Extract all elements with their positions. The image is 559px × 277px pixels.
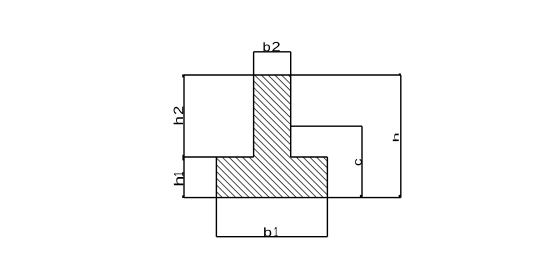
label h - glyph h: [393, 134, 399, 142]
T-section stem right edge: [290, 52, 292, 157]
tick at top-left corner: [182, 74, 184, 77]
label b2 - glyph 2: [272, 42, 280, 51]
T-section stem left edge: [253, 52, 255, 157]
label b1 - glyph b: [264, 227, 271, 236]
label h2 - glyph h: [174, 117, 183, 124]
flange bottom edge / dimension baseline: [184, 197, 401, 199]
tick at bottom-left corner: [182, 195, 184, 198]
flange top edge left + h1/h2 extension line: [184, 156, 254, 158]
flange left edge + b1 extension: [215, 157, 217, 237]
tick at left h1/h2 split: [182, 155, 184, 161]
dimension line b2: [254, 51, 291, 53]
label b2 - glyph b: [264, 42, 271, 51]
label c - glyph c: [355, 159, 362, 166]
dimension line c (vertical): [361, 126, 363, 197]
hatched T cross-section area: [216, 75, 327, 198]
dimension vertical h1/h2 (left): [183, 75, 185, 198]
dimension line h (top, also stem top edge): [184, 74, 401, 76]
label h1 - glyph h: [174, 177, 183, 185]
label h1 - glyph 1: [174, 172, 183, 176]
label b1 - glyph 1: [274, 227, 277, 237]
flange right edge + b1 extension: [326, 157, 328, 237]
dimension line b1: [216, 236, 327, 238]
tick at bottom-right corner: [399, 195, 401, 198]
dimension line h (right vertical): [400, 75, 402, 198]
dimension line c (horizontal at centroid level): [291, 125, 362, 127]
flange top edge right: [291, 156, 328, 158]
tick at top-right corner: [399, 73, 401, 75]
label h2 - glyph 2: [174, 107, 184, 115]
tick at bottom of c dimension: [360, 195, 362, 198]
